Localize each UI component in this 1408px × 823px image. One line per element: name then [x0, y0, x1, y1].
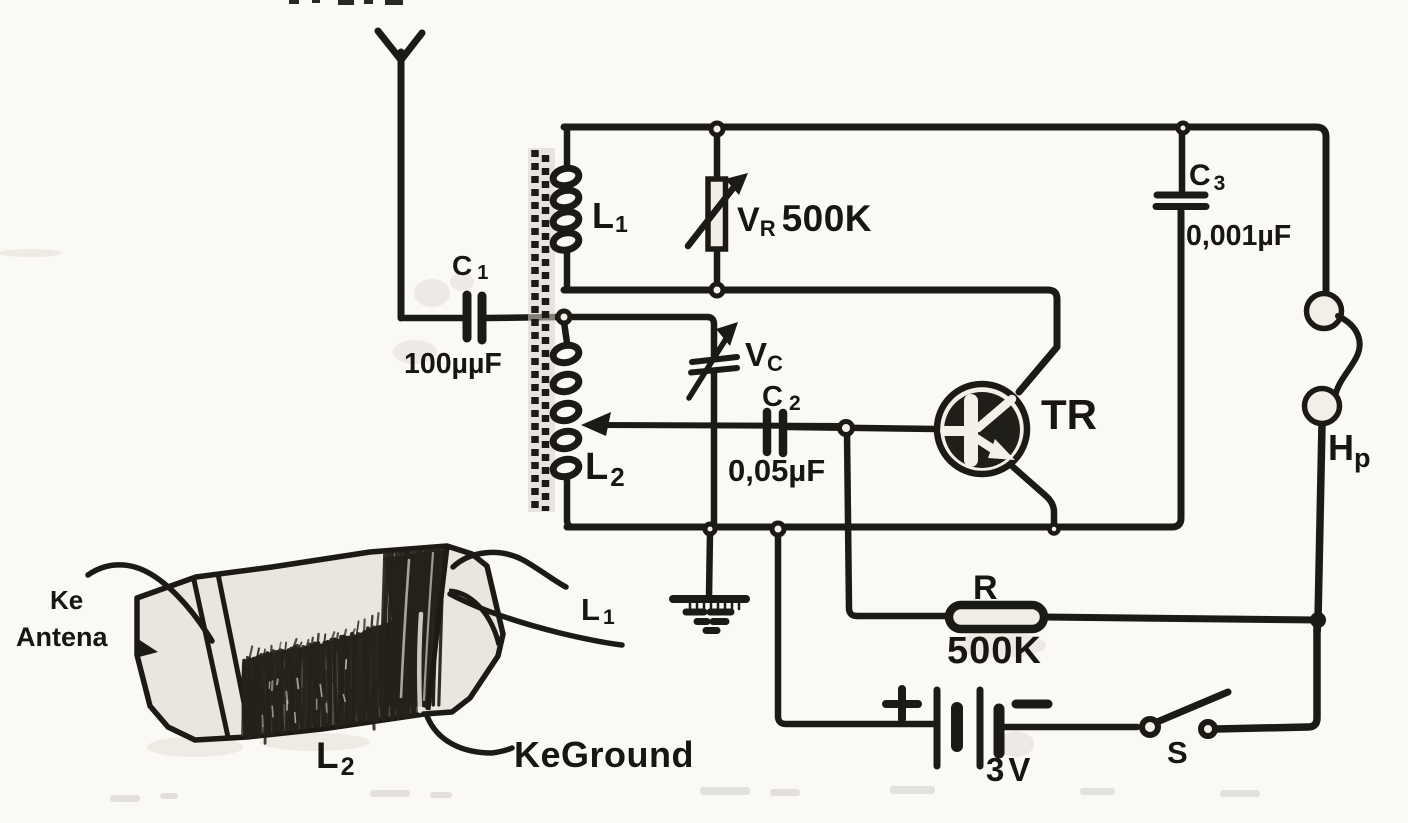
battery plus sign	[886, 689, 918, 719]
resistor R lead right	[1044, 617, 1318, 620]
pointer wire Ke Ground	[427, 716, 512, 753]
transformer core	[535, 150, 546, 511]
wire C2 to base	[788, 427, 936, 429]
antenna	[378, 31, 422, 318]
resistor R body	[949, 605, 1044, 629]
wire battery to switch	[1005, 724, 1137, 731]
svg-text:0,001µF: 0,001µF	[1186, 220, 1291, 252]
headphone Hp	[1305, 294, 1360, 424]
svg-text:100µµF: 100µµF	[404, 348, 502, 380]
bottom edge faint remnants	[110, 786, 1260, 802]
variable capacitor VC plates	[691, 357, 737, 373]
inductor L2	[552, 322, 581, 527]
battery minus sign	[1016, 700, 1048, 709]
wire Hp down leg	[1317, 424, 1322, 632]
wire emitter to bottom rail	[1012, 466, 1054, 524]
ground	[673, 532, 746, 631]
junction dot at R / Hp wire	[1310, 612, 1326, 628]
pointer wire Ke Antena	[88, 565, 212, 641]
core gray backdrop	[528, 148, 555, 512]
wire antenna to C1	[401, 316, 462, 318]
switch S	[1142, 625, 1317, 736]
battery B1	[937, 690, 999, 766]
svg-text:S: S	[1167, 735, 1188, 770]
node at ground on bottom rail	[705, 524, 715, 534]
wire C2 junction down to R	[847, 433, 857, 616]
wire L2 top to VC	[568, 317, 714, 357]
wire bottom rail	[567, 211, 1181, 527]
transistor TR	[937, 384, 1027, 474]
node at C3 top	[1178, 123, 1188, 133]
coil winding scribble	[241, 549, 446, 743]
svg-text:KeGround: KeGround	[514, 734, 694, 775]
coil bar body	[137, 546, 503, 740]
inductor L1	[552, 127, 581, 290]
svg-text:500K: 500K	[947, 630, 1042, 672]
arrowhead on tap wire	[581, 412, 611, 436]
wire L1/VR bottom rail to collector corner	[564, 290, 1057, 392]
wire VC lower lead	[711, 371, 718, 527]
wire top rail	[564, 127, 1326, 293]
pointer wire L1 lower	[450, 594, 622, 645]
wire C1 to L2 top node	[487, 317, 560, 318]
top edge cut text remnants	[289, 0, 403, 5]
svg-text:TR: TR	[1041, 391, 1097, 438]
wire tap with arrow from L2	[598, 425, 846, 426]
capacitor C2	[767, 412, 783, 453]
node at battery drop on bottom rail	[772, 523, 784, 535]
wire battery drop	[778, 533, 934, 724]
node at emitter on bottom rail	[1050, 525, 1059, 534]
svg-text:0,05µF: 0,05µF	[728, 453, 825, 488]
node at C2 / base junction	[840, 422, 853, 435]
coil left cap edge lines	[194, 580, 228, 737]
wire VR branch vertical	[714, 129, 721, 290]
arrowhead Ke Antena	[138, 639, 158, 657]
svg-text:3V: 3V	[986, 751, 1034, 788]
capacitor C1	[467, 295, 482, 340]
svg-text:Antena: Antena	[16, 622, 108, 652]
svg-text:Ke: Ke	[50, 585, 83, 615]
node at VR top	[711, 123, 723, 135]
variable resistor VR	[688, 173, 748, 249]
svg-text:VR500K: VR500K	[737, 198, 872, 241]
variable capacitor VC arrow	[689, 334, 729, 398]
resistor R lead left	[857, 613, 948, 620]
coil right cap chamfer	[449, 591, 499, 645]
node at L2 top / C1	[558, 311, 570, 323]
coil right cap left boundary	[428, 548, 447, 710]
svg-text:R: R	[973, 569, 998, 607]
node at VR bottom	[711, 284, 723, 296]
wire C3 top lead	[1179, 130, 1186, 191]
capacitor C3	[1156, 195, 1206, 207]
pointer wire L1 upper	[453, 552, 566, 587]
